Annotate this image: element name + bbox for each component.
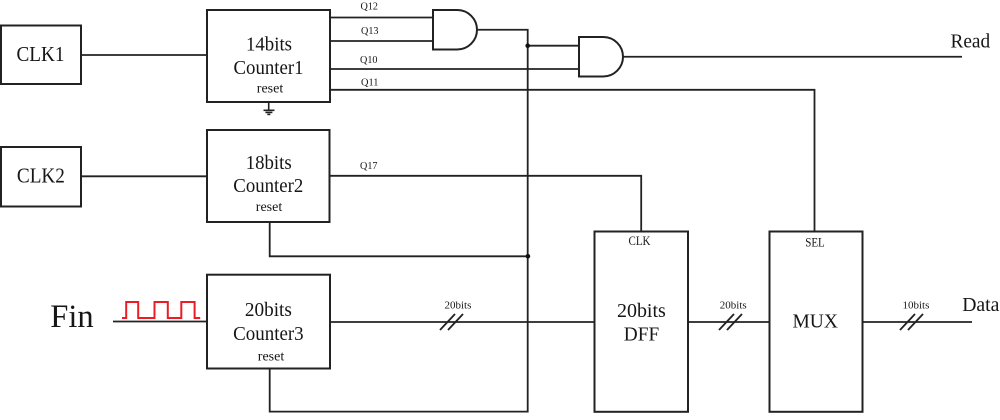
svg-text:Counter2: Counter2 [233, 175, 303, 197]
svg-text:Read: Read [950, 31, 990, 53]
svg-text:Data: Data [962, 294, 999, 316]
svg-text:Fin: Fin [50, 299, 93, 335]
svg-text:Q17: Q17 [360, 160, 378, 172]
svg-text:20bits: 20bits [445, 300, 472, 312]
svg-text:CLK2: CLK2 [17, 164, 65, 188]
svg-text:20bits: 20bits [617, 300, 666, 322]
svg-text:20bits: 20bits [720, 299, 747, 311]
svg-text:10bits: 10bits [903, 300, 930, 312]
svg-text:14bits: 14bits [246, 33, 292, 55]
svg-text:18bits: 18bits [246, 152, 292, 174]
svg-text:Q10: Q10 [360, 54, 378, 66]
svg-text:CLK1: CLK1 [17, 42, 65, 66]
svg-text:reset: reset [256, 200, 283, 215]
svg-text:reset: reset [258, 350, 285, 365]
svg-text:Counter3: Counter3 [233, 323, 304, 345]
svg-text:Q12: Q12 [361, 1, 379, 13]
svg-text:reset: reset [257, 82, 284, 97]
svg-text:MUX: MUX [793, 311, 839, 333]
svg-text:20bits: 20bits [245, 299, 292, 321]
svg-text:CLK: CLK [629, 234, 651, 248]
svg-text:DFF: DFF [624, 323, 659, 345]
svg-text:Q13: Q13 [361, 25, 379, 37]
svg-text:Q11: Q11 [361, 77, 379, 89]
svg-text:SEL: SEL [805, 236, 825, 250]
svg-text:Counter1: Counter1 [234, 57, 304, 79]
